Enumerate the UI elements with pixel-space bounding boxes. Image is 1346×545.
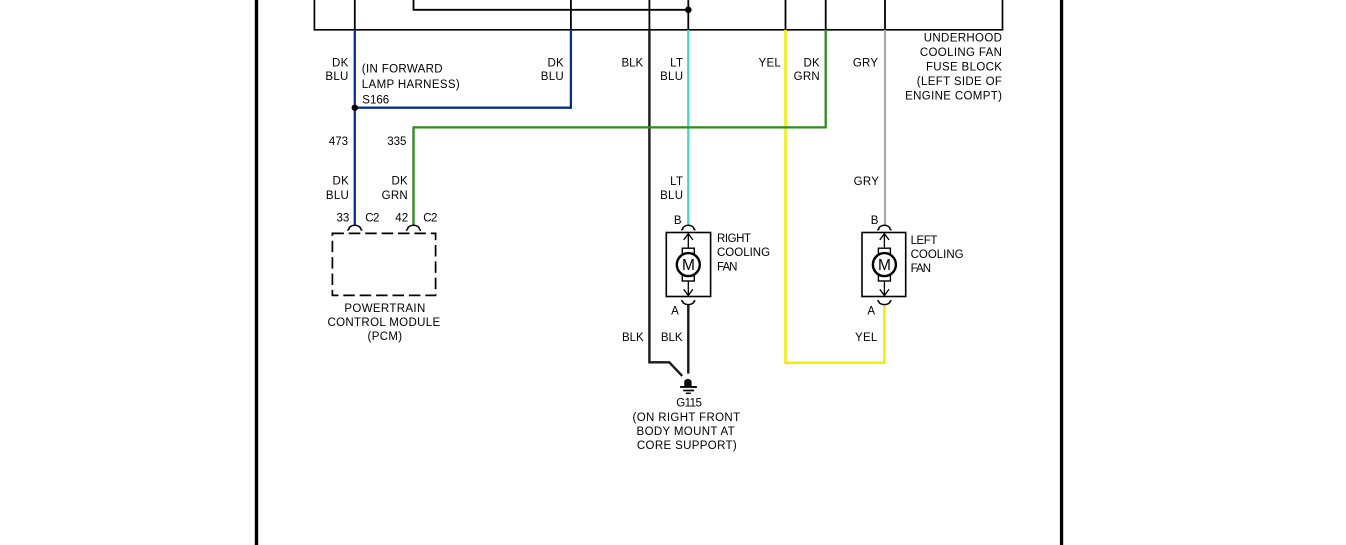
svg-text:B: B (871, 215, 879, 227)
ground line 3 (686, 392, 691, 394)
svg-text:LAMP HARNESS): LAMP HARNESS) (362, 79, 460, 91)
svg-text:RIGHT: RIGHT (717, 233, 751, 245)
svg-text:DK: DK (803, 58, 820, 70)
fuse block bus junction dot (685, 7, 692, 14)
left fan top arrow (883, 233, 885, 248)
ground line 1 (680, 386, 697, 388)
right page border (1060, 0, 1063, 545)
svg-text:FUSE BLOCK: FUSE BLOCK (926, 62, 1002, 74)
svg-text:33: 33 (337, 212, 350, 224)
svg-text:M: M (878, 257, 891, 274)
fuse block internal vertical stub 2 (570, 0, 572, 30)
connector arc PCM pin 33 (347, 225, 362, 230)
svg-text:BODY MOUNT AT: BODY MOUNT AT (637, 426, 735, 438)
svg-text:BLU: BLU (660, 190, 683, 202)
svg-text:YEL: YEL (759, 58, 782, 70)
svg-text:A: A (671, 305, 679, 317)
fuse block internal bus wire (414, 0, 689, 10)
left fan lower brush (878, 275, 890, 281)
wire LT BLU (687, 30, 689, 226)
fuse block internal vertical stub 7 (884, 0, 886, 30)
connector arc right fan B (681, 225, 695, 230)
svg-text:G115: G115 (676, 398, 701, 410)
fuse block internal vertical stub 1 (354, 0, 356, 30)
svg-text:FAN: FAN (911, 263, 931, 275)
svg-text:BLU: BLU (325, 71, 348, 83)
svg-text:CORE SUPPORT): CORE SUPPORT) (637, 440, 737, 452)
left fan motor circle M (873, 253, 896, 276)
ground line 2 (683, 390, 694, 392)
svg-text:GRY: GRY (853, 58, 879, 70)
svg-text:COOLING: COOLING (911, 249, 964, 261)
right cooling fan motor box (666, 233, 710, 297)
fuse block box left edge (313, 0, 315, 30)
wire DK GRN (414, 30, 826, 226)
svg-text:GRN: GRN (382, 190, 408, 202)
svg-text:LT: LT (670, 176, 683, 188)
svg-text:(ON RIGHT FRONT: (ON RIGHT FRONT (633, 412, 741, 424)
ground G115 stud (684, 379, 691, 386)
svg-text:GRN: GRN (794, 71, 820, 83)
wire BLK right fan A to ground (687, 305, 689, 374)
svg-text:POWERTRAIN: POWERTRAIN (344, 303, 425, 315)
svg-text:473: 473 (329, 136, 348, 148)
svg-text:S166: S166 (362, 95, 389, 107)
wire GRY (884, 30, 886, 226)
fuse block box right edge (1002, 0, 1004, 30)
svg-text:GRY: GRY (854, 176, 880, 188)
svg-text:BLU: BLU (541, 71, 564, 83)
svg-text:BLK: BLK (622, 332, 644, 344)
svg-text:BLU: BLU (326, 190, 349, 202)
connector arc left fan B (877, 225, 891, 230)
left fan bottom arrow (883, 281, 885, 296)
fuse block internal vertical stub 6 (825, 0, 827, 30)
svg-text:DK: DK (547, 57, 564, 69)
connector arc left fan A (877, 301, 891, 305)
svg-text:BLU: BLU (660, 71, 683, 83)
fuse block internal vertical stub 5 (785, 0, 787, 30)
right fan top arrow (687, 233, 689, 248)
svg-text:COOLING: COOLING (717, 247, 770, 259)
svg-text:LEFT: LEFT (911, 235, 938, 247)
connector arc PCM pin 42 (406, 225, 421, 230)
svg-text:B: B (674, 215, 682, 227)
wire BLK from fuse block to ground (649, 30, 682, 376)
svg-text:(PCM): (PCM) (368, 331, 403, 343)
svg-text:C2: C2 (365, 212, 379, 224)
right fan bottom arrow (687, 281, 689, 296)
splice S166 junction dot (352, 105, 358, 111)
fuse block internal vertical stub 3 (648, 0, 650, 30)
svg-text:BLK: BLK (661, 332, 683, 344)
svg-text:YEL: YEL (855, 332, 878, 344)
svg-text:LT: LT (670, 57, 683, 69)
svg-text:FAN: FAN (717, 261, 737, 273)
svg-text:BLK: BLK (621, 58, 643, 70)
left fan upper brush (878, 248, 890, 254)
wire YEL (786, 30, 885, 363)
svg-text:335: 335 (387, 136, 406, 148)
svg-text:CONTROL MODULE: CONTROL MODULE (327, 317, 440, 329)
svg-text:COOLING FAN: COOLING FAN (920, 47, 1002, 59)
connector arc right fan A (681, 301, 695, 305)
svg-text:DK: DK (333, 176, 350, 188)
svg-text:A: A (867, 305, 875, 317)
svg-text:DK: DK (391, 176, 408, 188)
fuse block internal vertical stub 4 (687, 0, 689, 30)
left cooling fan motor box (862, 233, 906, 297)
svg-text:M: M (682, 257, 695, 274)
svg-text:(IN FORWARD: (IN FORWARD (362, 64, 443, 76)
right fan motor circle M (677, 253, 700, 276)
svg-text:(LEFT SIDE OF: (LEFT SIDE OF (917, 76, 1003, 88)
svg-text:UNDERHOOD: UNDERHOOD (924, 33, 1003, 45)
wire DK BLU branch to splice S166 (355, 30, 571, 108)
right fan upper brush (682, 248, 694, 254)
svg-text:42: 42 (395, 212, 408, 224)
right fan lower brush (682, 275, 694, 281)
wire DK BLU circuit 473 vertical (354, 30, 356, 226)
svg-text:DK: DK (332, 57, 349, 69)
left page border (255, 0, 258, 545)
svg-text:ENGINE COMPT): ENGINE COMPT) (905, 91, 1002, 103)
PCM dashed box (332, 233, 435, 295)
svg-text:C2: C2 (423, 212, 437, 224)
fuse block box bottom edge (314, 29, 1004, 31)
